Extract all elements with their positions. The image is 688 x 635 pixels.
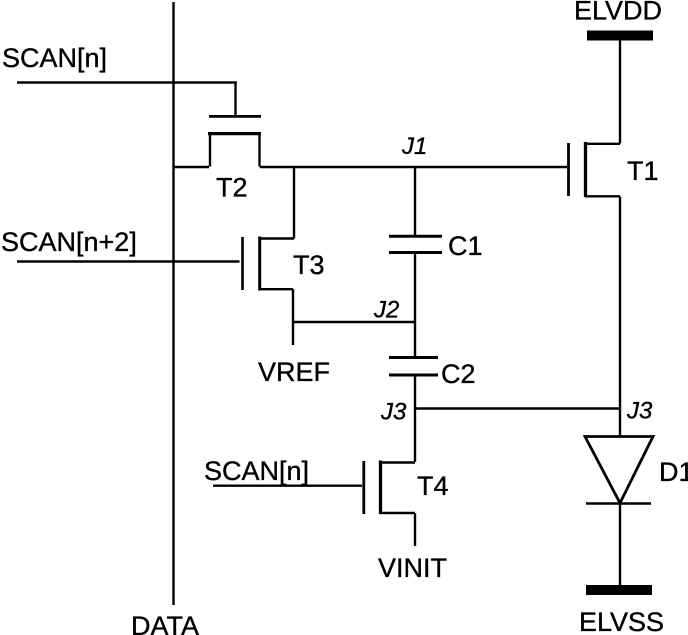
transistor T3 channel bar	[258, 237, 261, 291]
wire diode to ELVSS	[619, 503, 621, 585]
wire T2 gate drop	[234, 83, 236, 116]
transistor T2 gate bar	[209, 115, 261, 118]
power rail ELVSS bar	[586, 585, 652, 595]
svg-text:SCAN[n]: SCAN[n]	[204, 456, 309, 486]
power rail ELVDD bar	[587, 31, 653, 41]
svg-text:J2: J2	[373, 297, 399, 324]
transistor T1 channel bar	[584, 142, 587, 197]
svg-text:D1: D1	[659, 457, 688, 487]
svg-text:J1: J1	[401, 133, 427, 160]
capacitor C2 bottom plate	[389, 374, 438, 377]
wire row J1 right segment (T2 to T1 gate)	[260, 166, 567, 168]
wire SCAN[n] top horizontal	[17, 81, 237, 83]
wire VREF stub	[292, 289, 294, 345]
transistor T3 gate bar	[241, 237, 244, 290]
wire T1 drain vertical to ELVDD	[619, 40, 621, 144]
transistor T4 gate bar	[362, 461, 365, 514]
svg-text:SCAN[n]: SCAN[n]	[2, 43, 107, 73]
wire T1 source lead	[585, 195, 620, 197]
svg-text:T4: T4	[417, 471, 449, 501]
wire T3 drain lead	[260, 237, 294, 239]
wire DATA vertical line	[172, 2, 174, 605]
wire C2 down through J3 to T4	[414, 375, 416, 462]
wire C1 to C2 vertical	[414, 253, 416, 356]
wire T2 left leg	[209, 134, 211, 167]
transistor T2 channel bar	[208, 132, 261, 135]
wire T1 drain lead	[585, 143, 620, 145]
wire T2 right leg	[258, 134, 260, 167]
diode D1 triangle	[585, 437, 653, 504]
wire junction drop to T3 drain	[293, 167, 295, 239]
transistor T4 channel bar	[379, 461, 382, 515]
svg-text:T3: T3	[293, 250, 325, 280]
svg-text:C2: C2	[441, 359, 476, 389]
wire J1 vertical to C1	[414, 167, 416, 235]
wire T4 drain lead	[380, 461, 415, 463]
svg-text:DATA: DATA	[131, 611, 199, 635]
capacitor C2 top plate	[389, 356, 438, 359]
svg-text:VREF: VREF	[258, 357, 330, 387]
svg-text:T2: T2	[216, 173, 248, 203]
wire node J2 horizontal	[293, 321, 415, 323]
svg-text:T1: T1	[627, 156, 659, 186]
svg-text:J3: J3	[626, 398, 653, 425]
svg-text:J3: J3	[380, 399, 407, 426]
wire T3 source lead	[260, 288, 293, 290]
svg-text:SCAN[n+2]: SCAN[n+2]	[1, 227, 137, 257]
wire SCAN[n+2] horizontal	[17, 260, 240, 262]
wire T1 source vertical to diode	[619, 197, 621, 437]
svg-text:VINIT: VINIT	[378, 553, 447, 583]
svg-text:ELVSS: ELVSS	[579, 607, 664, 635]
wire T4 source lead	[380, 512, 415, 514]
svg-text:C1: C1	[448, 231, 483, 261]
wire node J3 horizontal	[415, 407, 619, 409]
capacitor C1 top plate	[389, 235, 442, 238]
transistor T1 gate bar	[567, 143, 570, 196]
wire T4 source vertical to VINIT	[414, 513, 416, 546]
diode D1 cathode bar	[586, 502, 651, 505]
wire SCAN[n] bottom (T4 gate lead)	[213, 485, 362, 487]
capacitor C1 bottom plate	[389, 251, 442, 254]
wire row J1 left segment (DATA to T2)	[174, 166, 210, 168]
svg-text:ELVDD: ELVDD	[574, 0, 662, 26]
